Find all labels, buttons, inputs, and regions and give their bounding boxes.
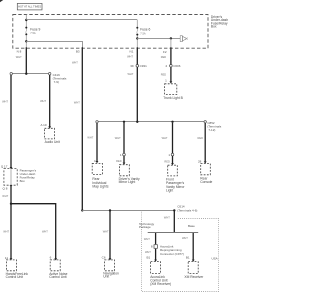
terminal arrow into driver vanity — [123, 163, 126, 165]
svg-text:WHT: WHT — [3, 229, 9, 233]
svg-text:(Terminals 4-6): (Terminals 4-6) — [177, 208, 197, 212]
svg-text:C606: C606 — [173, 64, 181, 68]
wire: rear console drop — [204, 123, 206, 161]
node: junction diode branch — [136, 37, 138, 39]
Passenger's Under-dash Fuse/Relay Box (dashed) — [4, 169, 17, 186]
component Trunk Light (dashed box) — [165, 84, 177, 95]
node: junction ANC branch — [10, 203, 12, 205]
wire: F2 drop inside box — [170, 38, 172, 48]
label Rear Console — [200, 177, 212, 184]
svg-text:RED: RED — [164, 159, 170, 163]
variant split bus — [139, 222, 198, 233]
svg-text:7-12): 7-12) — [208, 128, 215, 132]
node: junction F2 drop — [170, 37, 172, 39]
terminal arrow into rear console — [204, 161, 207, 163]
component Audio Unit (dashed box) — [45, 128, 55, 139]
wire: fuse6 bottom lead — [136, 35, 138, 48]
svg-text:Trunk Light B: Trunk Light B — [163, 96, 183, 100]
fuse Fuse 9 7.5A — [25, 27, 40, 36]
svg-text:C6: C6 — [102, 256, 106, 260]
svg-text:Light: Light — [166, 189, 173, 193]
svg-text:Fuse 9: Fuse 9 — [30, 27, 40, 31]
component Rear Individual Map Lights (dashed box) — [92, 163, 102, 174]
svg-text:WHT: WHT — [145, 250, 151, 254]
svg-text:Q 8: Q 8 — [3, 186, 8, 190]
component HandsFreeLink Control Unit (dashed box) — [6, 260, 16, 271]
component Front Passenger's Vanity Mirror Light (dashed box) — [168, 165, 178, 176]
Driver's Under-dash Fuse/Relay Box (dashed) — [13, 15, 208, 49]
component XM Receiver (dashed box) — [188, 262, 198, 274]
wire: N8 exit to C416 — [25, 47, 27, 73]
component Rear Console (dashed box) — [201, 164, 211, 175]
svg-text:WHT: WHT — [2, 99, 8, 103]
svg-text:Fuse 6: Fuse 6 — [140, 28, 150, 32]
svg-text:7.5A: 7.5A — [30, 31, 36, 35]
label Driver's Vanity Mirror Light — [119, 177, 140, 184]
terminal arrow into acuralink control unit — [154, 260, 157, 262]
wire: C606 to Trunk Light — [170, 67, 172, 82]
wire: right fuse top lead — [136, 20, 138, 27]
component Navigation Unit (dashed box) — [105, 260, 115, 271]
terminal arrow out of passenger box — [10, 185, 13, 187]
wire: circle to front vanity box — [172, 156, 174, 164]
svg-text:Map Lights: Map Lights — [92, 185, 108, 189]
svg-text:WHT: WHT — [103, 229, 109, 233]
svg-text:WHT: WHT — [127, 72, 133, 76]
wire: circle to driver vanity box — [123, 156, 125, 163]
svg-text:USA: USA — [212, 256, 218, 260]
svg-text:11: 11 — [5, 256, 8, 260]
connector C416 (Terminals 7-9) — [10, 73, 67, 84]
svg-text:WHT: WHT — [74, 100, 80, 104]
connector C614 (Terminals 4-6) line — [81, 204, 197, 212]
component Driver's Vanity Mirror Light (dashed box) — [120, 165, 130, 176]
label Navigation Unit — [103, 272, 119, 279]
wire: drop to Navigation Unit — [109, 210, 111, 258]
inline connector C931 — [130, 64, 147, 68]
svg-text:RED: RED — [161, 55, 167, 59]
terminal arrow into passenger box — [10, 167, 13, 169]
wire: C614 drop into USA box — [173, 210, 175, 233]
svg-text:7-9): 7-9) — [54, 80, 59, 84]
svg-text:7.5A: 7.5A — [140, 31, 146, 35]
terminal arrow into xm receiver — [192, 260, 195, 262]
svg-text:Control Unit: Control Unit — [49, 275, 66, 279]
svg-text:WHT: WHT — [115, 136, 121, 140]
svg-text:WHT: WHT — [164, 215, 170, 219]
wire: front passenger vanity drop — [172, 123, 174, 153]
label AcuraLink Control Unit (XM Receiver) — [150, 275, 171, 286]
svg-text:RED: RED — [116, 159, 122, 163]
svg-text:WHT: WHT — [182, 236, 188, 240]
svg-text:Package: Package — [139, 225, 151, 229]
component AcuraLink Control Unit (dashed box) — [151, 262, 161, 274]
label HandsFreeLink Control Unit — [6, 272, 29, 279]
svg-text:WHT: WHT — [40, 99, 46, 103]
terminal arrow into HandsFreeLink — [10, 258, 13, 260]
svg-text:WHT: WHT — [16, 55, 22, 59]
svg-text:WHT: WHT — [87, 136, 93, 140]
svg-text:F2: F2 — [163, 50, 167, 54]
svg-text:Console: Console — [200, 180, 212, 184]
wire: fuse9 bottom lead — [25, 35, 27, 48]
wire: C977 to AcuraLink control unit — [155, 249, 157, 260]
svg-text:WHT: WHT — [162, 136, 168, 140]
page corner mark — [0, 0, 3, 2]
inline connector front vanity — [168, 153, 173, 157]
svg-text:A 10: A 10 — [40, 123, 46, 127]
label Rear Individual Map Lights — [92, 177, 108, 188]
wire: branch to diode — [137, 38, 180, 40]
svg-text:B1: B1 — [147, 256, 151, 260]
label Driver's Under-dash Fuse/Relay Box — [211, 15, 228, 29]
svg-text:Control Unit: Control Unit — [6, 275, 23, 279]
svg-text:C931: C931 — [140, 64, 148, 68]
label Passenger's box — [20, 169, 37, 183]
node: junction B3 branch — [25, 40, 27, 42]
label Front Passenger's Vanity Mirror Light — [166, 177, 185, 192]
node: junction top left — [25, 19, 27, 21]
svg-text:Box: Box — [20, 179, 26, 183]
svg-text:Unit: Unit — [103, 275, 109, 279]
svg-text:RED: RED — [198, 136, 204, 140]
svg-text:Mirror Light: Mirror Light — [119, 180, 136, 184]
wire: bus to right fuse — [26, 19, 137, 21]
label Active Noise Control Unit — [49, 272, 67, 279]
inline connector C606 — [166, 64, 181, 68]
connector AcuraLink Reprogramming Connector C977 — [151, 244, 184, 256]
wire: C931 to C852 junction — [136, 67, 138, 122]
diode symbol — [180, 36, 188, 42]
terminal arrow into audio unit — [48, 126, 51, 128]
header box HOT AT ALL TIMES — [17, 3, 42, 9]
wire: F2 exit down — [170, 47, 172, 64]
terminal arrow into map lights — [96, 161, 99, 163]
wire: branch to Active Noise — [11, 204, 56, 259]
inline connector driver vanity — [120, 153, 125, 157]
svg-text:WHT: WHT — [144, 237, 150, 241]
svg-text:WHT: WHT — [127, 55, 133, 59]
fuse Fuse 6 7.5A — [136, 27, 150, 36]
svg-text:Audio Unit: Audio Unit — [45, 140, 60, 144]
wire: C416 right to Audio Unit — [49, 75, 51, 127]
svg-text:WHT: WHT — [72, 60, 78, 64]
wire: left drop to Passenger box — [10, 75, 12, 167]
svg-text:N1: N1 — [130, 50, 134, 54]
svg-text:Connector (C977): Connector (C977) — [160, 252, 184, 256]
terminal arrow into Navigation — [109, 258, 112, 260]
wire: branch to B3 drop — [26, 42, 82, 49]
connector C852 (Terminals 7-12) — [96, 121, 222, 132]
wire: driver vanity drop — [123, 123, 125, 153]
svg-text:Box: Box — [211, 25, 217, 29]
svg-text:B3: B3 — [76, 50, 80, 54]
svg-text:XM Receiver: XM Receiver — [184, 275, 204, 279]
wire: B3 drop long — [81, 47, 83, 210]
terminal arrow into trunk light — [170, 81, 173, 83]
svg-text:N 8: N 8 — [17, 50, 22, 54]
wire: passenger box to junction to HandsFreeLink — [10, 187, 12, 259]
svg-text:B1: B1 — [186, 256, 190, 260]
svg-text:(XM Receiver): (XM Receiver) — [150, 282, 171, 286]
terminal arrow into Active Noise — [54, 258, 57, 260]
wire: map lights drop — [96, 123, 98, 161]
svg-text:RED: RED — [161, 73, 167, 77]
svg-text:39: 39 — [130, 64, 134, 68]
svg-text:HOT AT ALL TIMES: HOT AT ALL TIMES — [18, 5, 41, 9]
svg-text:Q 17: Q 17 — [1, 164, 8, 168]
svg-text:WHT: WHT — [2, 194, 8, 198]
wire: technology package drop — [155, 233, 157, 244]
svg-text:28: 28 — [198, 160, 202, 164]
USA dashed variant box — [142, 210, 219, 291]
wire: fuse9 top lead — [25, 15, 27, 28]
terminal arrow into front vanity — [171, 163, 174, 165]
svg-text:Base: Base — [188, 224, 195, 228]
wire: N1 exit down — [136, 47, 138, 64]
component Active Noise Control Unit (dashed box) — [50, 260, 60, 271]
svg-text:WHT: WHT — [42, 229, 48, 233]
wire: base drop — [192, 233, 194, 260]
